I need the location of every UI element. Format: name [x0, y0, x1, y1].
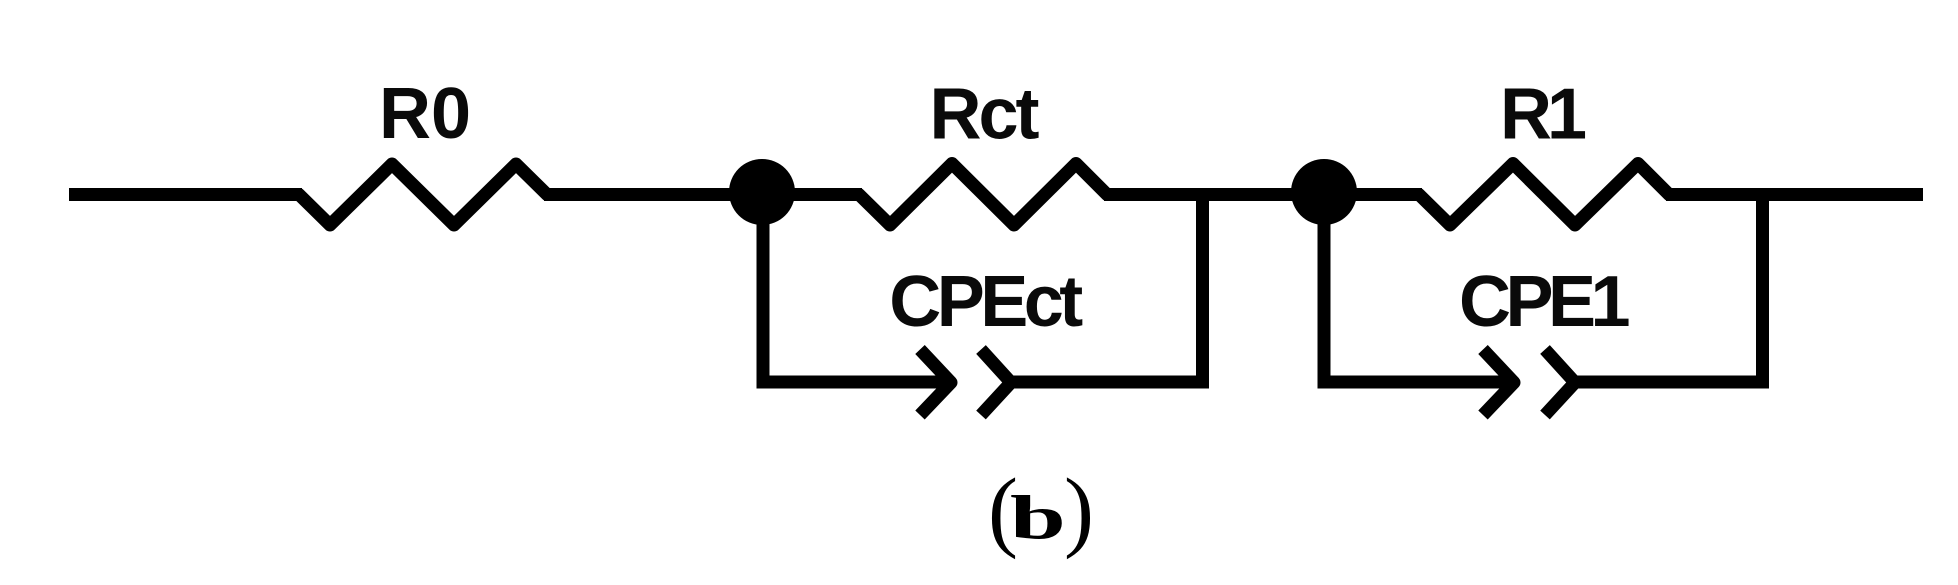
capacitor CPE1 chevron 1 [1483, 350, 1514, 416]
wire: R0 to node A [544, 188, 765, 201]
capacitor CPE1 chevron 2 [1545, 350, 1575, 416]
capacitor CPEct chevron 1 [920, 350, 951, 416]
svg-text:): ) [1064, 461, 1094, 560]
node A junction dot [729, 159, 795, 225]
node B junction dot [1291, 159, 1357, 225]
svg-text:CPE1: CPE1 [1459, 262, 1630, 342]
wire: parallel box 1 to node B [1202, 188, 1327, 201]
resistor R0 [299, 164, 547, 225]
wire: left input lead [69, 188, 302, 201]
svg-text:b: b [1010, 484, 1066, 552]
wire: CPE1 bottom-right branch and right vertical of parallel box 2 [1575, 195, 1763, 383]
wire: CPEct bottom-right branch and right vertical of parallel box 1 [1011, 195, 1203, 383]
resistor R1 [1419, 164, 1669, 226]
caption (b) letter b [1010, 484, 1066, 552]
wire: node A vertical drop and bottom-left branch of CPEct [763, 195, 951, 383]
capacitor CPEct chevron 2 [981, 350, 1011, 416]
resistor Rct [859, 164, 1107, 226]
wire: node B vertical drop and bottom-left branch of CPE1 [1324, 195, 1514, 383]
svg-text:CPEct: CPEct [889, 262, 1083, 342]
svg-text:R0: R0 [379, 74, 471, 154]
wire: R1 to top-right corner of parallel box 2 and right output lead [1666, 188, 1923, 201]
svg-text:Rct: Rct [929, 75, 1039, 155]
wire: Rct to top-right corner of parallel box 1 [1104, 188, 1203, 201]
wire: node B to R1 [1324, 188, 1422, 201]
svg-text:R1: R1 [1500, 75, 1586, 155]
wire: node A to Rct [762, 188, 862, 201]
